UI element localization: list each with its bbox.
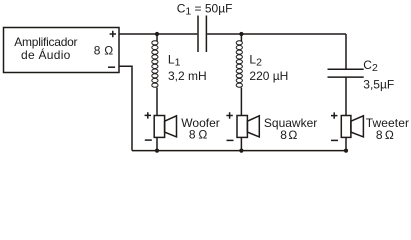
wire woofer to bottom rail [156,137,158,150]
svg-text:3,5µF: 3,5µF [363,78,394,92]
inductor L2 [236,41,242,88]
squawker plus terminal [226,112,232,118]
woofer minus terminal [145,139,152,141]
speaker Squawker [237,116,259,138]
svg-text:8 Ω: 8 Ω [189,128,207,142]
tweeter plus terminal [331,112,337,118]
svg-text:L2: L2 [249,53,262,69]
capacitor C2 [328,69,364,77]
svg-text:L1: L1 [168,53,181,69]
wire bottom rail [132,150,346,152]
amp plus terminal [110,31,116,37]
svg-text:C2: C2 [363,58,378,74]
svg-text:de Áudio: de Áudio [21,47,71,62]
node L2 top junction [239,32,243,36]
node tweeter bottom junction [344,149,348,153]
wire L1 stub top [156,34,158,41]
inductor L1 [152,41,158,88]
speaker Tweeter [341,116,363,138]
wire L2 to squawker [240,88,242,116]
wire top rail right (C1 to corner) [207,33,346,35]
amplifier box [4,28,120,73]
svg-text:220 µH: 220 µH [249,69,288,83]
node L1 top junction [155,32,159,36]
amp minus terminal [108,66,115,68]
svg-text:8 Ω: 8 Ω [280,128,297,142]
wire squawker to bottom rail [240,137,242,150]
wire L1 to woofer [156,88,158,116]
svg-text:C1 = 50µF: C1 = 50µF [177,1,233,17]
wire right column upper (corner down to C2) [345,34,347,69]
svg-text:8 Ω: 8 Ω [376,128,394,142]
wire top rail left (amp + to C1) [119,33,197,35]
capacitor C1 [198,16,206,53]
wire tweeter to bottom rail [345,137,347,150]
node woofer bottom junction [155,149,159,153]
svg-text:8 Ω: 8 Ω [94,44,113,58]
node squawker bottom junction [239,149,243,153]
wire C2 to tweeter [345,77,347,115]
svg-text:Amplificador: Amplificador [14,35,77,49]
wire amp minus out [119,66,132,150]
speaker Woofer [154,116,176,138]
tweeter minus terminal [331,139,338,141]
svg-text:3,2 mH: 3,2 mH [168,69,207,83]
squawker minus terminal [227,139,234,141]
woofer plus terminal [145,112,151,118]
wire L2 stub top [240,34,242,41]
